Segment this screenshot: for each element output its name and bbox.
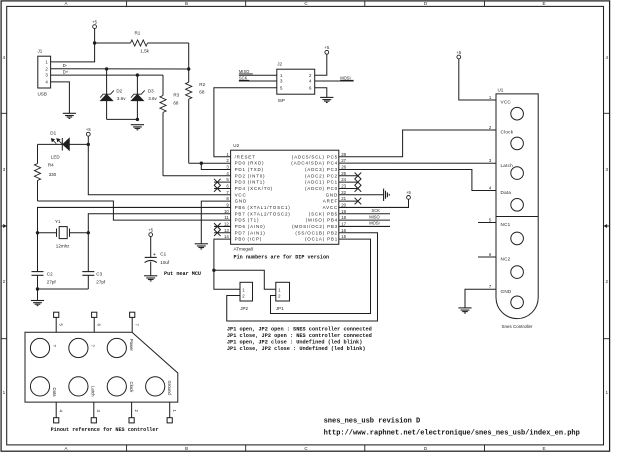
svg-text:PD4 (XCK/T0): PD4 (XCK/T0) [235, 186, 273, 191]
svg-text:R2: R2 [199, 82, 205, 87]
svg-text:AVCC: AVCC [323, 205, 338, 210]
svg-text:PD3 (INT1): PD3 (INT1) [235, 180, 266, 185]
wire D+ (J1 pin3 to R3) [51, 70, 163, 76]
stub U1 NC2 [478, 256, 496, 258]
svg-text:SCK: SCK [239, 76, 248, 81]
zener diode D3 3.6v [131, 75, 158, 119]
svg-text:3.6v: 3.6v [117, 96, 126, 101]
svg-text:GND: GND [235, 199, 247, 204]
svg-text:13: 13 [224, 228, 229, 233]
svg-text:E: E [542, 446, 545, 451]
node D-/R1/R2 junction [187, 67, 190, 70]
svg-text:17: 17 [341, 222, 346, 227]
svg-text:MISO: MISO [239, 69, 249, 74]
supply +5 (C1) [148, 227, 153, 257]
svg-text:D+: D+ [63, 70, 69, 75]
supply +5 (USB) [92, 19, 97, 43]
connector U1 Snes Controller body [496, 88, 538, 319]
svg-text:VCC: VCC [235, 192, 247, 197]
ground (J1) [63, 113, 76, 118]
supply +5 (J2 pin2) [315, 45, 330, 75]
svg-text:Snes Controller: Snes Controller [501, 324, 533, 329]
svg-text:Put near MCU: Put near MCU [164, 271, 201, 277]
svg-text:D2: D2 [116, 89, 122, 94]
net label MOSI (U2 pin17) [339, 221, 390, 227]
svg-text:(ADC1) PC1: (ADC1) PC1 [305, 180, 338, 185]
wire J1 pin4 to ground [51, 82, 70, 113]
svg-text:12: 12 [224, 222, 229, 227]
ground (U2 pin22, rotated) [384, 189, 390, 201]
U2 pin names and numbers [224, 152, 347, 242]
ground (J2) [320, 97, 333, 102]
supply +5 (LED) [86, 127, 91, 146]
svg-text:JP1 close, JP2 open : NES cont: JP1 close, JP2 open : NES controller con… [227, 333, 372, 339]
svg-text:Clock: Clock [501, 130, 514, 135]
svg-text:Ground: Ground [167, 381, 172, 396]
svg-text:4: 4 [606, 55, 609, 60]
svg-text:4: 4 [3, 55, 6, 60]
supply +5 (AVCC pin20) [339, 190, 412, 207]
label Snes Controller [501, 324, 533, 329]
svg-text:(ADC5/SCL) PC5: (ADC5/SCL) PC5 [292, 154, 338, 159]
svg-text:15: 15 [341, 234, 346, 239]
svg-text:B: B [185, 1, 188, 6]
svg-text:Latch: Latch [90, 386, 95, 397]
svg-text:11: 11 [224, 215, 229, 220]
svg-text:ATmega8: ATmega8 [234, 247, 254, 252]
svg-text:GND: GND [326, 192, 338, 197]
svg-text:PD2 (INT0): PD2 (INT0) [235, 173, 266, 178]
svg-text:D3: D3 [148, 89, 154, 94]
NES top pads 5 6 7 [54, 312, 140, 332]
stub U1 NC1 [478, 222, 496, 224]
ground (crystal caps) [31, 301, 44, 306]
svg-text:SCK: SCK [372, 208, 381, 213]
svg-text:(MISO) PB4: (MISO) PB4 [306, 218, 338, 223]
svg-text:Y1: Y1 [55, 219, 61, 224]
svg-text:21: 21 [341, 196, 346, 201]
svg-text:27: 27 [341, 158, 346, 163]
svg-text:28: 28 [341, 152, 346, 157]
label: Pinout reference for NES controller [51, 427, 159, 433]
wire JP1 pin2 to PB1 [271, 239, 371, 313]
net label MISO (J2 pin1) [239, 69, 277, 75]
svg-text:R4: R4 [48, 163, 54, 168]
net label MISO (U2 pin18) [339, 214, 390, 220]
svg-text:27pf: 27pf [96, 279, 106, 284]
svg-text:JP1: JP1 [276, 306, 284, 311]
svg-text:24: 24 [341, 177, 346, 182]
svg-text:+5: +5 [456, 50, 461, 55]
svg-text:+5: +5 [324, 45, 329, 50]
NES controller pinout outline [25, 332, 178, 402]
LED D1 [38, 130, 89, 159]
svg-text:26: 26 [341, 165, 346, 170]
ground (D2/D3) [131, 125, 144, 130]
wire PC5 to Clock [339, 130, 496, 157]
svg-text:PB0 (ICP): PB0 (ICP) [235, 237, 262, 242]
node D-/D2 junction [105, 67, 108, 70]
label: Put near MCU [164, 271, 201, 277]
svg-text:(SCK) PB5: (SCK) PB5 [309, 211, 338, 216]
resistor R1 1.5k [95, 30, 189, 53]
svg-text:R1: R1 [135, 30, 141, 35]
title URL [324, 429, 580, 437]
wire U1 GND [465, 289, 496, 308]
svg-text:C1: C1 [160, 251, 166, 256]
U1 pin labels and contacts [489, 95, 524, 309]
svg-text:23: 23 [341, 184, 346, 189]
zener diode D2 3.6v [100, 69, 126, 120]
svg-text:MISO: MISO [369, 214, 379, 219]
capacitor C3 27pf [82, 272, 106, 289]
resistor R4 330 [34, 144, 56, 201]
svg-text:NC1: NC1 [501, 222, 511, 227]
label: Pin numbers are for DIP version [234, 255, 330, 261]
wire XTAL2 net [87, 214, 231, 272]
NES pin holes [30, 338, 164, 396]
svg-text:(ADC0) PC0: (ADC0) PC0 [305, 186, 338, 191]
connector J1 USB [38, 48, 51, 96]
svg-text:Latch: Latch [501, 163, 514, 168]
svg-text:U1: U1 [498, 88, 504, 93]
svg-text:2: 2 [606, 279, 609, 284]
svg-text:10uf: 10uf [160, 260, 170, 265]
svg-text:(SS/OC1B) PB2: (SS/OC1B) PB2 [295, 230, 338, 235]
wire J2 pin6 to ground [315, 88, 327, 98]
svg-text:C2: C2 [47, 272, 53, 277]
wire PC3 to Data [339, 169, 496, 190]
svg-text:MOSI: MOSI [369, 221, 379, 226]
svg-text:Clock: Clock [129, 382, 134, 394]
svg-text:330: 330 [49, 172, 57, 177]
svg-text:Power: Power [129, 339, 134, 352]
svg-text:Pinout reference for NES contr: Pinout reference for NES controller [51, 427, 159, 433]
svg-text:25: 25 [341, 171, 346, 176]
wire R1 to D- net [188, 43, 190, 69]
svg-text:Data: Data [501, 190, 512, 195]
svg-text:C3: C3 [96, 272, 102, 277]
resistor R3 68 [160, 75, 231, 176]
svg-text:1: 1 [3, 390, 6, 395]
svg-text:3: 3 [606, 167, 609, 172]
net label MOSI (J2 pin4) [315, 76, 354, 81]
svg-text:/RESET: /RESET [235, 154, 256, 159]
svg-text:1: 1 [606, 390, 609, 395]
jumper JP1 [276, 282, 290, 311]
svg-text:+5: +5 [148, 227, 153, 232]
svg-text:(ADC2) PC2: (ADC2) PC2 [305, 173, 338, 178]
net label SCK (U2 pin19) [339, 208, 390, 214]
svg-text:PD1 (TXD): PD1 (TXD) [235, 167, 264, 172]
svg-text:16: 16 [341, 228, 346, 233]
svg-text:68: 68 [199, 89, 205, 94]
NES signal names (rotated) [52, 339, 172, 397]
resistor R2 68 [186, 69, 206, 163]
svg-text:3.6v: 3.6v [148, 96, 157, 101]
svg-text:PB7 (XTAL2/TOSC2): PB7 (XTAL2/TOSC2) [235, 211, 291, 216]
svg-text:14: 14 [224, 234, 229, 239]
NES bottom pads 4 3 2 1 [54, 402, 177, 423]
wire PB0 pin14 to jumpers [212, 239, 276, 289]
svg-text:PB6 (XTAL1/TOSC1): PB6 (XTAL1/TOSC1) [235, 205, 291, 210]
svg-text:1,5k: 1,5k [140, 49, 149, 54]
svg-text:R3: R3 [173, 92, 179, 97]
svg-text:+5: +5 [92, 19, 97, 24]
svg-text:2: 2 [3, 279, 6, 284]
svg-text:20: 20 [341, 203, 346, 208]
ground (U1) [458, 308, 471, 313]
svg-text:U2: U2 [233, 143, 239, 148]
wire R4 to PD5 (T1) [38, 201, 231, 220]
jumper JP2 [240, 282, 253, 311]
svg-text:ISP: ISP [278, 98, 285, 103]
svg-text:+: + [153, 252, 156, 258]
wire U2 pin22 GND [339, 194, 384, 196]
wire D2/D3 common to ground [107, 118, 139, 121]
title: snes_nes_usb revision D [324, 417, 421, 425]
svg-text:J2: J2 [277, 61, 282, 66]
wire J1 pin1 VBUS to +5 [51, 43, 95, 62]
svg-text:18: 18 [341, 215, 346, 220]
svg-text:+5: +5 [406, 190, 411, 195]
no-connect pins PD3, PD4, PD6, PD7 [214, 179, 231, 236]
svg-text:D1: D1 [50, 130, 56, 135]
svg-text:PD7 (AIN1): PD7 (AIN1) [235, 230, 266, 235]
capacitor C2 27pf [32, 272, 57, 289]
net label SCK (J2 pin3) [239, 76, 277, 81]
jumper configuration notes [227, 326, 372, 352]
capacitor C1 10uf polarized [145, 251, 170, 275]
svg-text:Data: Data [52, 388, 57, 398]
wire XTAL1 net [36, 207, 231, 271]
svg-text:D-: D- [63, 63, 68, 68]
svg-text:(OC1A) PB1: (OC1A) PB1 [305, 237, 338, 242]
wire JP2 pin2 to PB2 [227, 233, 378, 321]
wire U2 pin8 GND [201, 201, 230, 244]
IC U2 ATmega8 body [231, 143, 339, 251]
wire J2 pin5 to /RESET [214, 88, 277, 157]
svg-text:AREF: AREF [323, 199, 338, 204]
svg-text:JP2: JP2 [240, 306, 248, 311]
svg-text:USB: USB [38, 92, 47, 97]
svg-text:VCC: VCC [501, 100, 512, 105]
svg-text:PD0 (RXD): PD0 (RXD) [235, 161, 265, 166]
svg-text:(MOSI/OC2) PB3: (MOSI/OC2) PB3 [292, 224, 338, 229]
ground (U2 pin8) [195, 244, 208, 249]
svg-text:Pin numbers are for DIP versio: Pin numbers are for DIP version [234, 255, 330, 261]
svg-text:19: 19 [341, 209, 346, 214]
svg-text:LED: LED [51, 154, 61, 159]
svg-text:B: B [185, 446, 188, 451]
svg-text:10: 10 [224, 209, 229, 214]
svg-text:JP1 close, JP2 close : Undefin: JP1 close, JP2 close : Undefined (led bl… [227, 346, 366, 352]
no-connect pins PC2, PC1, PC0, AREF [339, 172, 361, 204]
crystal Y1 12mhz [38, 219, 89, 248]
svg-text:JP1 open, JP2 open : SNES cont: JP1 open, JP2 open : SNES controller con… [227, 326, 372, 332]
ground (C1) [144, 276, 157, 281]
svg-text:(ADC3) PC3: (ADC3) PC3 [305, 167, 338, 172]
svg-text:22: 22 [341, 190, 346, 195]
svg-text:3: 3 [3, 167, 6, 172]
svg-text:68: 68 [173, 101, 179, 106]
node D+/D3 junction [136, 73, 139, 76]
node +5/R1 junction [93, 41, 96, 44]
wire +5 to VCC pin7 [88, 144, 230, 194]
svg-text:E: E [542, 1, 545, 6]
svg-text:snes_nes_usb revision D: snes_nes_usb revision D [324, 417, 421, 425]
svg-text:12mhz: 12mhz [56, 243, 70, 248]
wire R2 to PD0/PD1 [189, 162, 231, 170]
svg-text:J1: J1 [38, 48, 43, 53]
svg-text:+5: +5 [86, 127, 91, 132]
svg-text:GND: GND [501, 289, 512, 294]
supply +5 (U1 VCC) [456, 50, 496, 100]
svg-text:JP1 open, JP2 close : Undefine: JP1 open, JP2 close : Undefined (led bli… [227, 340, 362, 346]
svg-text:(ADC4/SDA) PC4: (ADC4/SDA) PC4 [291, 161, 338, 166]
svg-text:http://www.raphnet.net/electro: http://www.raphnet.net/electronique/snes… [324, 429, 580, 437]
wire PC4 to Latch [339, 162, 496, 164]
wire C2/C3 common to ground [36, 287, 89, 300]
connector J2 ISP [277, 61, 315, 102]
svg-text:27pf: 27pf [47, 279, 57, 284]
svg-text:NC2: NC2 [501, 257, 511, 262]
svg-text:PD5 (T1): PD5 (T1) [235, 218, 260, 223]
svg-text:PD6 (AIN0): PD6 (AIN0) [235, 224, 266, 229]
wire D- (J1 pin2 to R2) [51, 63, 189, 69]
